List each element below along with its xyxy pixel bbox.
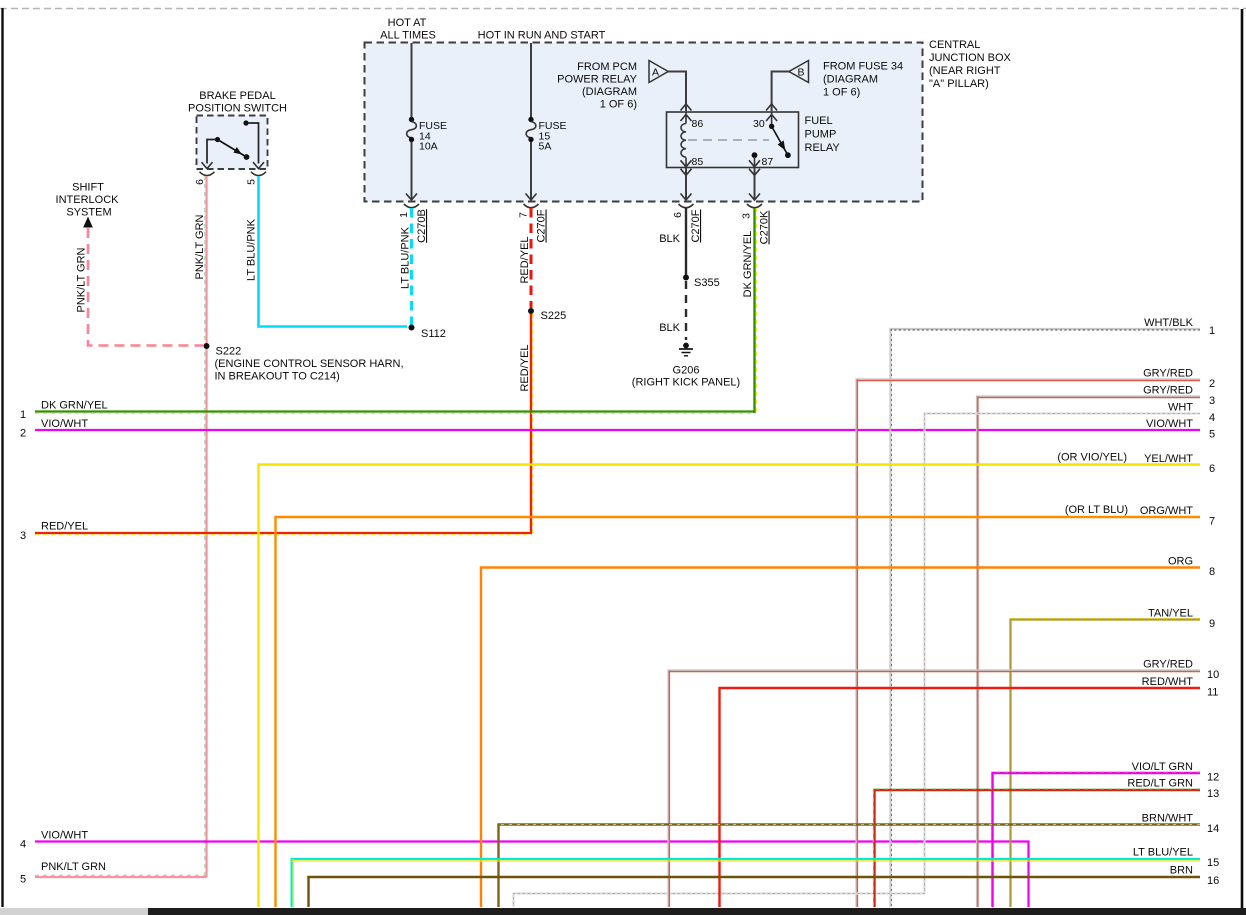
left wire 5 PNK/LT GRN [35,875,207,877]
wire fuse 14 to C270B [411,142,413,199]
svg-text:POWER RELAY: POWER RELAY [557,74,638,86]
right wire 13 RED/LT GRN [873,789,1200,907]
right wire 8 ORG [481,568,1200,908]
svg-text:7: 7 [518,212,530,218]
svg-text:9: 9 [1209,618,1215,630]
svg-text:3: 3 [20,530,26,542]
connector C270K pin 3 [741,204,771,244]
svg-text:11: 11 [1207,687,1218,699]
relay switch arm [772,126,791,158]
svg-text:RED/YEL: RED/YEL [519,344,531,391]
svg-text:C270F: C270F [690,209,702,242]
svg-text:LT BLU/PNK: LT BLU/PNK [246,218,258,281]
svg-text:GRY/RED: GRY/RED [1143,385,1193,397]
brake pedal position switch box [197,116,268,170]
svg-text:RED/WHT: RED/WHT [1142,676,1194,688]
left wire 2 VIO/WHT full width [35,429,1200,431]
svg-text:PNK/LT GRN: PNK/LT GRN [76,247,88,312]
svg-text:G206: G206 [673,365,700,377]
svg-text:4: 4 [1209,412,1215,424]
right wire 4 WHT [514,414,1201,908]
svg-text:RED/LT GRN: RED/LT GRN [1127,778,1193,790]
svg-text:ALL TIMES: ALL TIMES [380,30,436,42]
wire PNK/LT GRN dashed to S222 [88,228,203,346]
svg-text:BRAKE PEDAL: BRAKE PEDAL [199,90,275,102]
svg-text:VIO/WHT: VIO/WHT [41,830,88,842]
svg-text:87: 87 [762,156,774,168]
svg-text:5: 5 [1209,429,1215,441]
svg-text:5: 5 [246,179,258,185]
svg-text:S112: S112 [421,328,446,340]
svg-text:YEL/WHT: YEL/WHT [1144,453,1193,465]
svg-text:(OR VIO/YEL): (OR VIO/YEL) [1057,452,1127,464]
svg-text:10A: 10A [419,141,438,153]
svg-text:SYSTEM: SYSTEM [66,207,111,219]
svg-text:85: 85 [692,156,704,168]
right wire 10 GRY/RED [669,671,1201,908]
svg-text:DK GRN/YEL: DK GRN/YEL [41,400,108,412]
left wire 4 VIO/WHT [35,842,1029,908]
right wire 6 YEL/WHT [259,465,1201,908]
svg-text:VIO/WHT: VIO/WHT [41,418,88,430]
svg-text:POSITION SWITCH: POSITION SWITCH [188,103,287,115]
svg-text:LT BLU/YEL: LT BLU/YEL [1133,847,1193,859]
svg-text:ORG: ORG [1168,556,1193,568]
svg-text:6: 6 [672,212,684,218]
connector C270B pin 1 [398,204,428,243]
svg-text:3: 3 [1209,395,1215,407]
svg-text:(ENGINE CONTROL SENSOR HARN,: (ENGINE CONTROL SENSOR HARN, [215,358,404,370]
ground G206 [679,343,693,356]
wire from HOT IN RUN AND START to fuse 15 [530,43,532,117]
svg-text:DK GRN/YEL: DK GRN/YEL [742,231,754,298]
wire BLK dashed S355 to G206 [685,281,687,340]
right frame border [1241,9,1244,908]
svg-text:FUEL: FUEL [805,115,833,127]
svg-text:RED/YEL: RED/YEL [519,236,531,283]
svg-text:2: 2 [1209,378,1215,390]
svg-text:GRY/RED: GRY/RED [1143,659,1193,671]
svg-text:FROM FUSE 34: FROM FUSE 34 [823,61,903,73]
fuse 15 5A [526,117,536,142]
svg-text:PNK/LT GRN: PNK/LT GRN [194,214,206,279]
svg-text:VIO/WHT: VIO/WHT [1146,418,1193,430]
right wire 3 GRY/RED [977,397,1200,908]
splice S222 [204,343,210,349]
svg-text:VIO/LT GRN: VIO/LT GRN [1132,761,1193,773]
relay dashed actuation line [688,139,769,141]
svg-text:1 OF 6): 1 OF 6) [823,87,860,99]
connector C270F pin 6 [672,204,702,243]
connector C270F pin 7 [518,204,548,243]
svg-text:5A: 5A [539,141,552,153]
svg-text:1: 1 [1209,325,1215,337]
svg-text:15: 15 [1207,857,1219,869]
wire RED/YEL S225 down [530,314,532,533]
svg-text:ORG/WHT: ORG/WHT [1140,505,1193,517]
svg-text:7: 7 [1209,516,1215,528]
wire relay 87 to C270K pin 3 [754,168,756,200]
svg-text:IN BREAKOUT TO C214): IN BREAKOUT TO C214) [215,371,340,383]
right wire 12 VIO/LT GRN [993,772,1201,907]
right wire 16 BRN [309,877,1201,907]
wire LT BLU/PNK pin5 down to S112 [259,176,408,327]
central junction box C270 (dashed, blue fill) [365,43,923,202]
svg-text:BRN: BRN [1170,865,1193,877]
wire DK GRN/YEL C270K-3 down [753,208,755,413]
wire A to relay pin 86 [668,72,686,112]
fuse 14 10A [407,117,417,142]
wire fuse 15 to C270F [530,142,532,199]
svg-text:1 OF 6): 1 OF 6) [600,99,637,111]
brake switch arm [218,140,250,160]
svg-text:86: 86 [692,118,704,130]
fuel pump relay box [667,112,799,168]
svg-text:CENTRAL: CENTRAL [929,39,980,51]
svg-text:(OR LT BLU): (OR LT BLU) [1065,504,1128,516]
left wire 1 DK GRN/YEL [35,412,756,414]
svg-text:C270F: C270F [536,209,548,242]
svg-text:B: B [797,67,804,79]
svg-text:30: 30 [753,118,765,130]
svg-text:1: 1 [20,409,26,421]
right wire 1 WHT/BLK [891,329,1201,907]
svg-text:3: 3 [741,213,753,219]
svg-text:6: 6 [1209,463,1215,475]
right wire 7 ORG/WHT [276,517,1201,907]
wire from HOT AT ALL TIMES to fuse 14 [411,43,413,117]
svg-text:14: 14 [1207,823,1219,835]
svg-text:16: 16 [1207,875,1219,887]
relay coil pin 86 to 85 [681,112,692,167]
svg-text:12: 12 [1207,772,1219,784]
svg-text:8: 8 [1209,566,1215,578]
right wire 11 RED/WHT [720,688,1201,907]
svg-text:LT BLU/PNK: LT BLU/PNK [400,226,412,289]
svg-text:WHT/BLK: WHT/BLK [1144,317,1194,329]
wire B to relay pin 30 [772,72,789,112]
connector triangle B [789,61,809,83]
svg-text:GRY/RED: GRY/RED [1143,368,1193,380]
svg-text:PUMP: PUMP [805,129,837,141]
splice S225 [528,308,534,314]
svg-text:SHIFT: SHIFT [72,182,104,194]
svg-text:WHT: WHT [1168,402,1193,414]
wire relay 85 to C270F pin 6 [685,168,687,200]
svg-text:HOT IN RUN AND START: HOT IN RUN AND START [478,30,606,42]
svg-text:INTERLOCK: INTERLOCK [56,194,120,206]
svg-text:10: 10 [1207,669,1219,681]
wire RED/YEL dashed C270F to S225 [530,208,533,308]
svg-text:S355: S355 [694,277,720,289]
relay pin 87 [749,152,760,167]
splice S355 [683,275,689,281]
svg-text:BLK: BLK [659,322,680,334]
arrow to shift interlock system [83,217,93,228]
svg-text:6: 6 [194,179,206,185]
right wire 14 BRN/WHT [499,825,1201,908]
svg-text:S225: S225 [541,310,567,322]
svg-text:2: 2 [20,428,26,440]
svg-text:(DIAGRAM: (DIAGRAM [823,74,878,86]
left frame border [1,8,3,907]
wire PNK/LT GRN pin6 down to wire 5 row [205,176,207,877]
svg-text:4: 4 [20,839,26,851]
bottom grey bar [0,908,148,915]
svg-text:JUNCTION BOX: JUNCTION BOX [929,52,1012,64]
svg-text:5: 5 [20,874,26,886]
wire LT BLU/PNK dashed C270B to S112 [410,208,413,325]
svg-text:RED/YEL: RED/YEL [41,521,88,533]
svg-text:(DIAGRAM: (DIAGRAM [582,86,637,98]
svg-text:BLK: BLK [659,233,680,245]
right wire 2 GRY/RED [857,380,1201,908]
bottom black bar [148,908,1246,915]
left wire 3 RED/YEL [35,533,532,535]
svg-text:A: A [652,67,659,79]
svg-text:PNK/LT GRN: PNK/LT GRN [41,861,106,873]
svg-text:TAN/YEL: TAN/YEL [1148,608,1193,620]
right wire 9 TAN/YEL [1010,619,1201,908]
svg-text:13: 13 [1207,788,1219,800]
wire BLK C270F-6 to S355 [685,208,687,275]
relay switch pin 30 [769,112,774,129]
splice S112 [409,325,415,331]
svg-text:1: 1 [398,212,410,218]
svg-text:FROM PCM: FROM PCM [577,61,637,73]
svg-text:HOT AT: HOT AT [388,17,427,29]
svg-text:BRN/WHT: BRN/WHT [1142,813,1194,825]
right wire 15 LT BLU/YEL [292,859,1201,907]
svg-text:C270B: C270B [416,209,428,243]
top dashed frame line [0,8,1246,10]
svg-text:S222: S222 [216,346,242,358]
svg-text:RELAY: RELAY [805,142,841,154]
svg-text:(RIGHT KICK PANEL): (RIGHT KICK PANEL) [632,377,740,389]
brake switch pin 6 branch [200,137,221,176]
svg-text:(NEAR RIGHT: (NEAR RIGHT [929,65,1001,77]
svg-text:C270K: C270K [759,210,771,244]
svg-text:"A" PILLAR): "A" PILLAR) [929,78,989,90]
brake switch pin 5 branch [243,120,266,175]
connector triangle A [649,61,668,83]
